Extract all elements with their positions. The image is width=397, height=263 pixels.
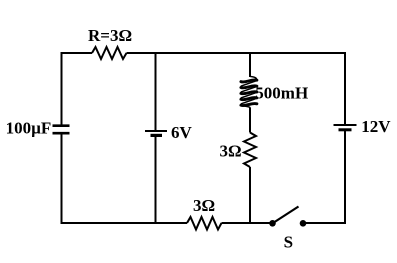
battery B1 6V short plate — [151, 134, 163, 137]
capacitor C1 100µF top plate — [53, 124, 70, 127]
battery B2 12V short plate — [339, 128, 352, 131]
inductor L1 500mH coil (thick front band strokes) — [241, 80, 257, 106]
wire: L/R branch top stub — [249, 53, 251, 77]
switch S right contact dot — [300, 220, 307, 227]
switch S left contact dot — [269, 220, 276, 227]
wire: top rail left segment (node A to R1 left) — [61, 52, 93, 54]
resistor R2 (3Ω, vertical) — [244, 133, 256, 168]
svg-text:3Ω: 3Ω — [220, 142, 242, 161]
wire: bottom rail segment 3 (switch right contact to bottom-right corner) — [303, 222, 345, 224]
svg-text:12V: 12V — [361, 117, 391, 136]
wire: 12V branch upper — [344, 52, 346, 124]
svg-text:R=3Ω: R=3Ω — [88, 26, 132, 45]
battery B1 6V long plate — [145, 130, 167, 132]
svg-text:6V: 6V — [171, 123, 193, 142]
wire: R2 to bottom rail — [249, 167, 251, 224]
wire: between inductor L1 and resistor R2 — [249, 108, 251, 133]
switch S lever — [273, 207, 299, 224]
wire: 6V branch upper — [155, 53, 157, 130]
wire: bottom rail segment 1 (bottom-left corner to R3 left) — [61, 222, 188, 224]
resistor R3 (3Ω, bottom) — [187, 217, 222, 230]
wire: top rail right segment (R1 right to top-right corner) — [127, 52, 346, 54]
svg-text:100µF: 100µF — [6, 119, 52, 138]
svg-text:500mH: 500mH — [255, 84, 308, 103]
wire: 12V branch lower — [344, 131, 346, 224]
battery B2 12V long plate — [334, 124, 357, 126]
svg-text:S: S — [284, 233, 293, 252]
wire: bottom rail segment 2 (R3 right to switch left contact) — [222, 222, 273, 224]
wire: 6V branch lower — [155, 136, 157, 223]
inductor L1 500mH coil (thin helix return strokes) — [241, 77, 257, 108]
capacitor C1 100µF bottom plate — [53, 132, 70, 135]
wire: left branch upper (to capacitor C1 top plate) — [61, 52, 63, 125]
svg-text:3Ω: 3Ω — [193, 196, 215, 215]
resistor R1 (R=3Ω, top) — [92, 47, 127, 59]
wire: left branch lower (capacitor to bottom rail) — [61, 135, 63, 225]
